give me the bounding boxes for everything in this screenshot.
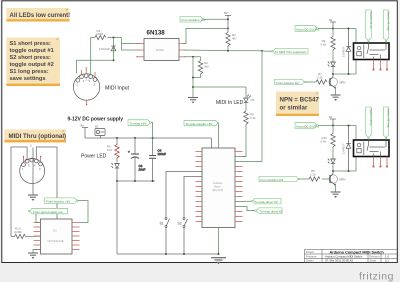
diode flyback 1N4007 driver 2	[346, 126, 351, 172]
svg-text:To opto-coupler +5V: To opto-coupler +5V	[186, 122, 213, 126]
resistor R6 2.2k	[244, 111, 256, 124]
svg-text:9v: 9v	[329, 18, 333, 22]
wire: 9V rail to relay coil	[333, 28, 356, 30]
wire: collector rail to coil return	[333, 73, 356, 75]
svg-text:MIDI Thru (optional): MIDI Thru (optional)	[9, 133, 67, 140]
svg-text:MIDI Input: MIDI Input	[105, 86, 129, 92]
label: To opto-coupler +5V	[184, 120, 219, 126]
node: flyback bottom junction	[348, 73, 350, 75]
node: +5V junction at R2 top	[227, 27, 229, 29]
diode D1 1N4148	[111, 38, 116, 61]
resistor base 2.2k driver 1	[316, 80, 327, 84]
battery B1 DC jack	[95, 129, 105, 139]
svg-text:Filename: Filename	[306, 254, 317, 258]
label: From DC IN (9V) driver 1	[295, 26, 319, 32]
wire: coil bottom drop	[355, 157, 357, 172]
svg-text:To relay driver #1: To relay driver #1	[260, 210, 283, 214]
resistor R1 220R	[95, 35, 106, 39]
node: collector junction	[332, 73, 334, 75]
relay pin stubs bottom	[373, 60, 388, 71]
note: MIDI Thru (optional)	[4, 129, 66, 142]
svg-text:Project: Project	[306, 250, 314, 254]
resistor R9 5.6k	[321, 29, 336, 62]
wire: D2 pin to label	[235, 200, 251, 202]
microcontroller A1 Arduino Nano	[202, 148, 235, 228]
svg-text:9-12V DC power supply: 9-12V DC power supply	[68, 117, 124, 123]
label: From opto-coupler out	[28, 208, 67, 214]
svg-text:3k0: 3k0	[204, 65, 209, 69]
wire: rail down to Arduino VIN	[211, 138, 213, 148]
resistor R2 4k7	[226, 33, 230, 46]
svg-text:Power LED: Power LED	[81, 154, 107, 160]
wire: ring label to relay	[385, 42, 387, 43]
note: All LEDs low current!	[6, 8, 70, 22]
wire: opto out label to U3 pin1	[36, 214, 41, 223]
node: ground junction	[218, 253, 220, 255]
svg-text:220R: 220R	[96, 32, 104, 36]
node: gnd branch junction	[192, 56, 194, 58]
svg-text:9v: 9v	[329, 115, 333, 119]
svg-text:To MIDI Thru (optional): To MIDI Thru (optional)	[275, 50, 306, 54]
label: To relay driver #2	[251, 198, 281, 204]
svg-text:fritzing: fritzing	[359, 271, 394, 282]
label: Switch #2 ring (vertical)	[383, 107, 390, 139]
svg-text:Switch #2 tip: Switch #2 tip	[369, 109, 373, 126]
capacitor C3 10uF	[128, 138, 146, 181]
wire: ring label to relay	[385, 139, 387, 140]
label: To relay driver #1	[255, 208, 283, 214]
svg-text:Switch #2 ring: Switch #2 ring	[387, 109, 391, 128]
title block	[305, 250, 398, 263]
wire: tip label to relay	[368, 42, 370, 43]
label: To MIDI Thru (optional)	[271, 49, 308, 55]
label: From Arduino +5V (U3)	[45, 198, 78, 204]
svg-text:toggle output #2: toggle output #2	[10, 62, 54, 68]
svg-text:U3: U3	[53, 229, 57, 233]
svg-text:NPN: NPN	[340, 178, 346, 182]
svg-text:1k0: 1k0	[107, 148, 112, 152]
svg-text:1N4007: 1N4007	[341, 46, 345, 57]
relay K2	[354, 140, 390, 157]
wire: DIN pin5 up to R1	[91, 38, 95, 75]
wire: D3 pin to label	[235, 207, 255, 211]
label: To relay +9V	[128, 120, 151, 126]
wire: S2 feed from Arduino	[184, 177, 202, 218]
ground under Q2	[331, 192, 341, 198]
label: Switch #1 ring (vertical)	[383, 10, 390, 42]
wire: thru pin5 bracket to U3	[36, 147, 57, 219]
svg-text:S2 short press:: S2 short press:	[10, 55, 52, 61]
wire: 9V rail to relay coil	[333, 125, 356, 127]
wire: resistor to base	[329, 81, 330, 83]
ground G5 under DIN thru	[28, 195, 38, 201]
node: R2 bottom junction	[227, 50, 229, 52]
power 9V bar driver 2	[330, 119, 336, 126]
MIDI Input DIN-5 connector J1	[73, 67, 99, 106]
svg-text:S2: S2	[178, 222, 182, 226]
Arduino left pin stubs	[196, 152, 203, 222]
wire: opto pin6 to R3/gnd	[184, 56, 201, 58]
svg-text:1N4148: 1N4148	[99, 47, 110, 51]
node: S2 rail junction	[183, 253, 185, 255]
resistor R5 1k0	[107, 138, 119, 163]
wire: label down to Arduino 5V pin	[217, 124, 219, 148]
wire: DC label to 9V node	[318, 124, 333, 126]
U3 left pin stubs	[34, 223, 41, 250]
svg-text:2.2k: 2.2k	[310, 173, 316, 177]
wire: R2 bottom to output rail	[227, 46, 229, 51]
note: S1/S2 behaviour	[6, 38, 60, 87]
svg-text:Revision: Revision	[370, 254, 381, 258]
op-amp U1 optocoupler 6N138	[136, 39, 186, 61]
svg-text:07. Mrz 2021 20:50:42: 07. Mrz 2021 20:50:42	[325, 259, 353, 263]
wire: bottom ground rail	[117, 253, 219, 255]
svg-text:6N138: 6N138	[147, 30, 166, 37]
svg-text:NPN: NPN	[340, 81, 346, 85]
wire: coil bottom drop	[355, 60, 357, 75]
node: MIDI thru tap junction	[261, 50, 263, 52]
LED relay indicator driver 1	[328, 62, 336, 75]
svg-text:1/1: 1/1	[385, 259, 389, 263]
svg-text:From DC IN (9V): From DC IN (9V)	[297, 124, 320, 128]
svg-text:save settings: save settings	[10, 76, 46, 82]
wire: coil top drop	[355, 126, 357, 141]
wire: S2 to ground rail	[183, 228, 185, 255]
svg-text:Sheet: Sheet	[370, 259, 377, 263]
relay K1	[354, 43, 390, 60]
svg-text:To relay +9V: To relay +9V	[130, 122, 147, 126]
wire: label down to rail	[151, 123, 152, 138]
wire: opto output rail pin7	[184, 49, 228, 52]
resistor base 2.2k driver 2	[309, 177, 320, 181]
svg-text:9v: 9v	[81, 123, 85, 127]
svg-text:220R: 220R	[15, 230, 23, 234]
wire: ladder into opto pin 2	[122, 38, 140, 51]
svg-text:S1 short press:: S1 short press:	[10, 41, 52, 47]
node: diode top junction	[113, 37, 115, 39]
node: junction at 77.5	[192, 77, 194, 79]
wire: diode return to DIN pin1	[77, 60, 114, 73]
note: NPN = BC547 or similar	[276, 92, 319, 117]
node: 9V junction	[332, 125, 334, 127]
label: From DC IN (9V) driver 2	[295, 123, 319, 129]
svg-text:2.2k: 2.2k	[317, 76, 323, 80]
label: From Arduino D3	[259, 176, 300, 182]
node: flyback bottom junction	[348, 170, 350, 172]
logic IC U3 74HC14	[41, 219, 73, 254]
svg-text:From opto-coupler out: From opto-coupler out	[33, 210, 63, 214]
switch S2	[183, 218, 188, 228]
label: Switch #1 tip (vertical)	[366, 10, 373, 42]
svg-text:From Arduino +5V: From Arduino +5V	[46, 200, 70, 204]
wire: junction to label	[262, 50, 271, 52]
wire: thru pin4 bracket to left drop	[11, 147, 27, 237]
power 9V bar symbol	[82, 128, 88, 139]
svg-text:5.6k: 5.6k	[321, 140, 327, 144]
wire: +5V label to U3 pin14	[78, 201, 88, 223]
power +5V symbol	[225, 16, 231, 33]
node: 9V junction	[332, 28, 334, 30]
node: S1 rail junction	[165, 253, 167, 255]
svg-text:From Arduino D2: From Arduino D2	[276, 81, 299, 85]
wire: LED chain top	[245, 87, 247, 97]
wire: Arduino RX stub	[235, 161, 243, 163]
transistor Q2 NPN BC547	[329, 171, 337, 192]
svg-text:5.6k: 5.6k	[321, 43, 327, 47]
U3 right pin stubs	[72, 223, 80, 250]
node: rail junctions	[116, 137, 118, 139]
wire: ladder into opto pin 3	[122, 43, 140, 45]
node: flyback top junction	[348, 125, 350, 127]
wire: opto output down to Arduino RX	[243, 51, 263, 162]
wire: long ground drop	[116, 181, 118, 254]
svg-text:4k7: 4k7	[232, 37, 237, 41]
wire: ground leg vertical	[192, 57, 194, 97]
resistor R11 5.6k	[321, 126, 336, 159]
node: LED branch junction	[192, 86, 194, 88]
ground G2	[188, 98, 198, 104]
node: collector junction	[332, 170, 334, 172]
ground under Q1	[331, 95, 341, 101]
svg-text:NPN = BC547: NPN = BC547	[280, 97, 320, 104]
wire: U3 ground leg	[33, 250, 41, 253]
resistor R10 220R	[11, 227, 41, 239]
wire: tip label to relay	[368, 139, 370, 140]
svg-text:toggle output #1: toggle output #1	[10, 48, 54, 54]
MIDI Thru DIN-5 connector J2	[20, 156, 45, 184]
svg-text:(Rev3.0): (Rev3.0)	[213, 188, 224, 192]
node: return rail junctions	[116, 180, 118, 182]
resistor R3 3k0	[198, 57, 209, 78]
svg-text:2.2k: 2.2k	[250, 116, 256, 120]
svg-text:S1 long press:: S1 long press:	[10, 69, 49, 75]
node: label junction	[227, 18, 229, 20]
svg-text:10uF: 10uF	[139, 168, 146, 172]
wire: resistor to base	[322, 178, 330, 180]
svg-text:5V: 5V	[224, 11, 228, 15]
svg-text:Drawn: Drawn	[306, 259, 314, 263]
wire: to MIDI In LED	[193, 86, 246, 88]
wire: Arduino LED chain stub	[235, 156, 246, 158]
wire: S1 feed from Arduino	[166, 172, 202, 218]
LED relay indicator driver 2	[328, 159, 336, 172]
wire: DC label to 9V node	[318, 27, 333, 29]
wire: thru pin2 shield drop	[32, 148, 34, 195]
svg-text:To relay driver #2: To relay driver #2	[255, 200, 278, 204]
ground G6 under U3	[28, 253, 38, 259]
svg-text:D5: D5	[251, 98, 255, 102]
wire: R3 bottom to ground leg	[193, 77, 201, 79]
label: From Arduino D2	[275, 79, 306, 85]
wire: main 9V rail	[85, 137, 212, 139]
ground G1 below Arduino	[211, 258, 226, 265]
svg-text:All LEDs low current!: All LEDs low current!	[10, 13, 71, 19]
LED D4 power	[112, 163, 120, 181]
label: Switch #2 tip (vertical)	[366, 107, 373, 139]
svg-text:100nF: 100nF	[158, 152, 167, 156]
svg-text:or similar: or similar	[280, 105, 308, 112]
svg-text:CD74HC14E: CD74HC14E	[48, 239, 64, 243]
svg-text:+: +	[128, 150, 130, 154]
svg-text:6N138: 6N138	[156, 48, 164, 52]
node: diode bottom junction	[113, 59, 115, 61]
capacitor C4 100nF	[149, 138, 166, 181]
Arduino right pin stubs	[235, 152, 243, 222]
wire: label to +5V rail	[204, 18, 228, 20]
svg-text:S1: S1	[160, 222, 164, 226]
wire: opto Vcc pin8 riser	[184, 28, 228, 43]
wire: LED chain down to Arduino pin	[243, 125, 247, 157]
LED D5 MIDI In	[244, 95, 251, 112]
svg-text:Switch #1 ring: Switch #1 ring	[387, 12, 391, 31]
diode flyback 1N4007 driver 1	[346, 29, 351, 75]
wire: collector rail to coil return	[333, 170, 356, 172]
wire: label to base resistor	[300, 178, 309, 180]
svg-text:MIDI In LED: MIDI In LED	[216, 100, 244, 106]
wire: decoupling return rail	[117, 180, 155, 182]
switch S1	[165, 218, 170, 228]
wire: R1 to ladder	[107, 37, 121, 39]
power 9V bar driver 1	[330, 22, 336, 29]
wire: coil top drop	[355, 29, 357, 44]
wire: S1 to ground rail	[165, 228, 167, 255]
relay pin stubs bottom	[373, 157, 388, 168]
transistor Q1 NPN BC547	[329, 74, 337, 95]
svg-text:From DC IN (9V): From DC IN (9V)	[297, 27, 320, 31]
svg-text:Switch #1 tip: Switch #1 tip	[369, 12, 373, 29]
svg-text:1N4007: 1N4007	[341, 143, 345, 154]
svg-text:B1: B1	[95, 124, 99, 128]
node: flyback top junction	[348, 28, 350, 30]
wire: Arduino ground drop	[218, 228, 220, 255]
svg-text:From Arduino D3: From Arduino D3	[261, 178, 284, 182]
label: From Arduino +5V	[180, 17, 206, 23]
wire: label to base resistor	[306, 81, 316, 83]
